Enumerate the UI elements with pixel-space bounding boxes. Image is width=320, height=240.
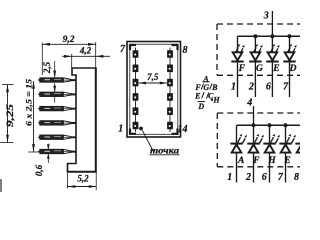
svg-text:5,2: 5,2 [77, 173, 89, 183]
svg-text:H: H [212, 95, 220, 104]
svg-text:E: E [272, 64, 279, 74]
svg-text:A: A [237, 156, 244, 166]
svg-text:F: F [238, 64, 246, 74]
svg-text:H: H [267, 156, 276, 166]
svg-text:9,2: 9,2 [63, 35, 75, 45]
svg-text:6: 6 [262, 172, 267, 183]
svg-text:8: 8 [183, 45, 188, 56]
svg-text:2: 2 [248, 82, 254, 93]
svg-text:D: D [197, 102, 204, 111]
svg-text:14: 14 [178, 124, 188, 135]
svg-text:6 x 2,5 = 15: 6 x 2,5 = 15 [25, 79, 34, 126]
svg-text:B: B [211, 83, 218, 92]
svg-text:8: 8 [294, 172, 299, 183]
svg-text:0,6: 0,6 [34, 164, 44, 176]
svg-text:6: 6 [266, 82, 271, 93]
svg-text:4,2: 4,2 [79, 45, 92, 55]
svg-text:7,5: 7,5 [147, 72, 159, 82]
svg-text:точка: точка [150, 146, 180, 156]
svg-text:1: 1 [227, 172, 232, 183]
svg-text:G: G [256, 64, 263, 74]
svg-text:G: G [203, 83, 209, 92]
svg-text:E: E [283, 156, 290, 166]
svg-text:2,5: 2,5 [42, 61, 52, 74]
svg-text:D: D [289, 64, 297, 74]
svg-text:1: 1 [118, 124, 123, 135]
svg-text:E: E [194, 91, 200, 100]
svg-text:F: F [252, 156, 260, 166]
svg-text:3: 3 [263, 10, 269, 21]
svg-text:2: 2 [245, 172, 251, 183]
svg-text:4: 4 [246, 98, 252, 109]
svg-text:1: 1 [231, 82, 236, 93]
svg-text:9,25: 9,25 [5, 103, 15, 127]
